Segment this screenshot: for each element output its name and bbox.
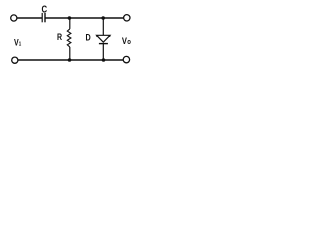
node junction top resistor	[68, 16, 72, 20]
terminal circle output top	[124, 15, 130, 21]
svg-text:C: C	[41, 4, 47, 15]
diode cathode bar	[99, 43, 108, 45]
wire bottom rail	[18, 59, 123, 61]
resistor zigzag body	[67, 29, 71, 47]
node junction bottom resistor	[68, 58, 72, 62]
terminal circle input bottom	[12, 57, 18, 63]
capacitor C	[41, 4, 47, 23]
capacitor left plate	[41, 13, 43, 22]
svg-text:R: R	[57, 32, 62, 42]
diode triangle	[97, 35, 110, 42]
wire resistor bottom lead	[69, 47, 71, 60]
node junction bottom diode	[102, 58, 106, 62]
wire resistor top lead	[69, 18, 71, 29]
wire top rail right	[45, 17, 124, 19]
capacitor right plate	[44, 13, 46, 22]
terminal circle output bottom	[123, 56, 129, 62]
wire diode anode lead	[102, 18, 104, 35]
node junction top diode	[101, 16, 105, 20]
terminal circle input top	[11, 15, 17, 21]
wire diode cathode lead	[102, 44, 104, 60]
svg-text:D: D	[85, 33, 90, 43]
diode D	[85, 18, 110, 60]
wire top rail left	[17, 17, 42, 19]
resistor R	[57, 18, 71, 60]
